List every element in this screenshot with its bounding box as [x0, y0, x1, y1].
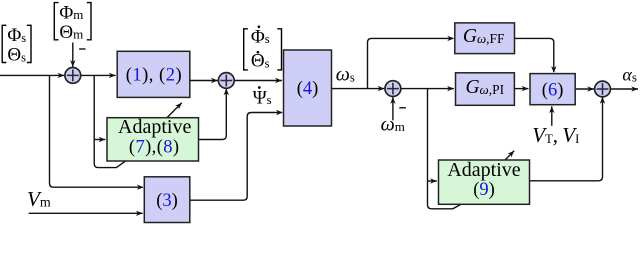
svg-text:(6): (6) — [542, 80, 564, 100]
svg-text:(4): (4) — [297, 79, 319, 99]
svg-text:(3): (3) — [156, 191, 178, 211]
svg-text:(1), (2): (1), (2) — [126, 66, 182, 86]
svg-text:(7),(8): (7),(8) — [129, 137, 180, 157]
svg-text:VT, VI: VT, VI — [532, 123, 579, 147]
svg-text:(9): (9) — [473, 180, 495, 200]
svg-text:Adaptive: Adaptive — [118, 116, 191, 138]
svg-text:Adaptive: Adaptive — [447, 159, 520, 181]
